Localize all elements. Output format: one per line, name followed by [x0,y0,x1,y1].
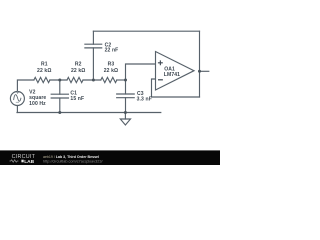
wire R1 to R2 [50,79,67,81]
svg-text:http://circuitlab.com/c7acq3oa: http://circuitlab.com/c7acq3oav323/ [43,159,103,163]
wire C3 top [125,80,127,94]
svg-text:15 nF: 15 nF [70,96,84,102]
svg-text:LM741: LM741 [164,72,180,78]
op-amp minus marker [158,79,163,81]
voltage source V2 [10,91,24,105]
svg-text:3.3 nF: 3.3 nF [137,97,152,103]
footer bar [0,150,220,165]
wire C3 bottom [125,98,127,113]
svg-text:100 Hz: 100 Hz [29,101,46,107]
svg-text:22 kΩ: 22 kΩ [37,68,51,74]
wire R2 to R3 [83,79,101,81]
wire V2 top to R1 [17,80,34,92]
resistor R3 [101,77,117,82]
node junction C2 tap [92,79,95,82]
wire C1 bottom [59,98,61,113]
footer logo resistor zigzag [10,160,19,162]
wire to plus input [126,64,156,80]
wire top feedback horizontal [93,30,199,32]
wire feedback bottom to minus input [152,79,200,97]
wire V2 bottom [16,106,18,113]
wire ground rail [17,112,161,114]
svg-text:R1: R1 [41,62,48,68]
ground [120,113,130,126]
node junction R3-C3 [124,79,127,82]
svg-text:R2: R2 [75,62,82,68]
node junction R1-C1 [58,79,61,82]
svg-text:22 nF: 22 nF [105,48,119,54]
resistor R1 [34,77,50,82]
wire C1 top [59,80,61,94]
node output junction [198,70,201,73]
wire C2 top vertical [92,31,94,44]
capacitor C3 [117,94,135,98]
node junction ground [124,111,127,114]
resistor R2 [67,77,83,82]
svg-text:R3: R3 [108,62,115,68]
svg-text:22 kΩ: 22 kΩ [104,68,118,74]
op-amp OA1 [156,52,195,91]
svg-text:LAB: LAB [24,159,34,165]
capacitor C1 [51,94,68,98]
wire output vertical [199,31,201,97]
wire C2 bottom vertical [92,48,94,80]
capacitor C2 [85,44,102,48]
node junction C1 ground rail [58,111,61,114]
op-amp plus marker [158,60,163,65]
wire R3 to node [117,79,126,81]
wire output stub [200,70,209,72]
svg-text:22 kΩ: 22 kΩ [71,68,85,74]
